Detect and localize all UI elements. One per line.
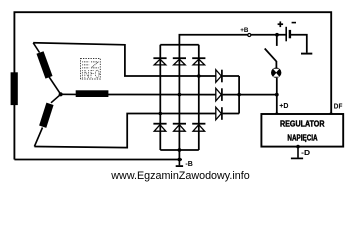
node -D at regulator [296,145,300,149]
wire +B feed [179,35,286,45]
node phase C / column 1 [159,112,163,116]
svg-text:+B: +B [240,27,248,34]
ground -D bar [291,157,303,159]
svg-text:REGULATOR: REGULATOR [280,119,325,128]
svg-text:DF: DF [334,104,343,111]
battery B plate + (long) [285,27,287,42]
node DF at regulator [329,112,333,116]
node +D at regulator [275,112,279,116]
wire bridge column 2 [178,45,180,150]
wire aux diode 3 out [223,113,240,115]
wire bridge column 3 [198,45,200,150]
label + (battery) [278,21,284,27]
ground -B stem [178,160,180,166]
diode D4 (bottom, column 1) [153,124,166,132]
switch S blade (open) [265,49,277,62]
wire phase B (right winding to bridge) [108,94,216,96]
stator winding W1 (upper-left) [33,43,61,95]
node -B junction [178,158,182,162]
wire lamp top [275,61,277,68]
node phase B / column 2 [178,93,182,97]
wire bridge top rail [160,44,199,46]
node aux collector mid [237,93,241,97]
diode D9 (aux, phase C) [216,107,222,120]
diode D8 (aux, phase B) [216,88,222,101]
wire lamp bottom [276,78,278,95]
lamp L (charge indicator) [271,68,281,78]
node bottom rail / column 2 [178,148,182,152]
label - (battery) [292,22,296,24]
svg-text:-D: -D [301,150,310,157]
wire +D into regulator [276,95,278,114]
rotor field winding [11,72,18,105]
node battery junction [275,33,279,37]
diode D1 (top, column 1) [153,58,166,65]
wire phase C (lower winding to bridge) [34,114,215,148]
stator winding W3 (right) [61,90,109,97]
wire +D node [239,94,277,96]
svg-text:www.EgzaminZawodowy.info: www.EgzaminZawodowy.info [110,170,249,182]
ground (battery) [301,53,312,55]
svg-text:NAPIĘCIA: NAPIĘCIA [287,134,317,143]
wire aux diode 1 out [223,75,240,77]
ground -B bar [176,165,183,167]
wire bridge minus to -B rail [178,150,180,160]
diode D6 (bottom, column 3) [192,124,205,132]
diode D2 (top, column 2) [173,58,186,65]
wire frame: left / top / right (field + DF circuit) [14,12,331,159]
wire battery to chassis ground [291,35,307,53]
stator winding W2 (lower-left) [34,94,60,146]
wire bottom -B rail [14,159,182,161]
node phase A / column 3 [197,74,201,78]
watermark logo EZ INFO [81,59,101,80]
node star point [59,92,63,96]
diode D3 (top, column 3) [192,58,205,65]
wire aux collector [238,76,240,114]
svg-text:-B: -B [185,161,192,168]
diode D7 (aux, phase A) [216,70,222,83]
regulator U1 box [261,114,343,147]
wire bridge bottom rail [160,149,199,151]
wire phase A (upper winding to bridge) [33,43,216,76]
ground -D stem [297,147,299,158]
svg-text:+D: +D [279,103,288,110]
wire switch upper contact [276,35,278,46]
terminal +B (open circle) [248,33,251,36]
node lamp / +D junction [275,93,279,97]
diode D5 (bottom, column 2) [173,124,186,132]
battery B plate - (short) [289,30,291,38]
wire bridge column 1 [159,45,161,150]
wire aux diode 2 out [223,94,240,96]
